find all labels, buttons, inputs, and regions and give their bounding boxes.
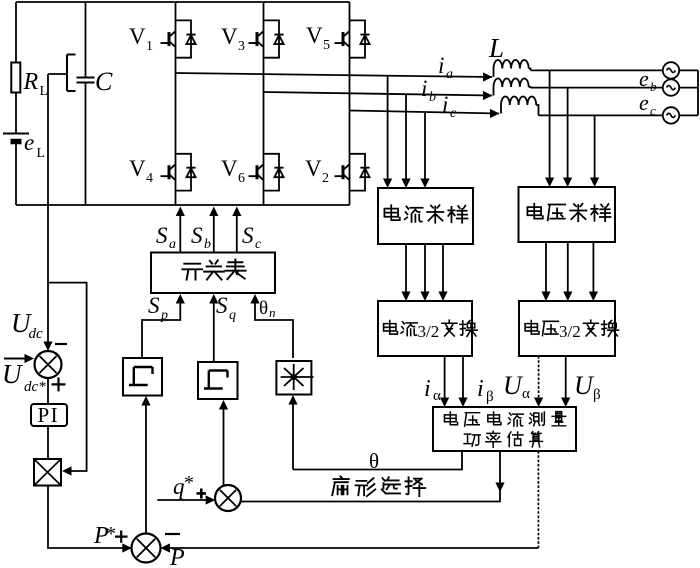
svg-text:β: β [593, 387, 601, 403]
svg-text:U: U [503, 371, 524, 400]
svg-text:b: b [429, 90, 436, 105]
svg-text:6: 6 [238, 171, 245, 186]
svg-text:i: i [424, 376, 431, 402]
svg-text:3/2: 3/2 [418, 322, 440, 341]
svg-text:V: V [221, 156, 238, 181]
svg-text:q: q [229, 308, 236, 323]
svg-text:S: S [148, 293, 160, 318]
svg-text:n: n [269, 305, 276, 320]
svg-text:5: 5 [323, 38, 330, 53]
svg-text:e: e [639, 66, 649, 91]
svg-text:α: α [433, 388, 441, 404]
svg-text:P: P [169, 545, 185, 568]
svg-text:i: i [477, 376, 484, 402]
svg-text:a: a [446, 67, 453, 82]
svg-text:c: c [255, 237, 262, 252]
svg-text:PI: PI [38, 403, 60, 427]
svg-text:S: S [191, 223, 203, 248]
svg-text:S: S [216, 293, 228, 318]
svg-text:a: a [169, 237, 176, 252]
svg-text:e: e [639, 90, 649, 115]
svg-text:2: 2 [322, 171, 329, 186]
svg-text:S: S [242, 223, 254, 248]
svg-text:V: V [305, 156, 322, 181]
svg-text:3/2: 3/2 [559, 322, 581, 341]
svg-text:β: β [486, 389, 494, 405]
svg-text:c: c [450, 106, 457, 121]
svg-text:*: * [106, 523, 116, 545]
svg-text:b: b [204, 237, 211, 252]
svg-text:4: 4 [146, 171, 153, 186]
svg-text:i: i [421, 76, 427, 101]
svg-text:S: S [156, 223, 168, 248]
svg-text:dc*: dc* [24, 379, 46, 395]
svg-text:R: R [23, 69, 39, 95]
svg-text:1: 1 [146, 39, 153, 54]
svg-text:V: V [306, 23, 323, 48]
svg-text:i: i [438, 53, 444, 78]
svg-text:U: U [2, 359, 23, 389]
svg-text:θ: θ [369, 449, 379, 473]
svg-text:i: i [442, 92, 448, 117]
svg-text:dc: dc [29, 326, 44, 342]
svg-text:L: L [37, 146, 46, 161]
svg-text:V: V [221, 24, 238, 49]
svg-text:V: V [129, 24, 146, 49]
svg-text:C: C [95, 67, 113, 96]
svg-text:b: b [650, 79, 657, 94]
svg-text:θ: θ [259, 298, 268, 319]
svg-text:U: U [574, 371, 595, 400]
svg-text:c: c [650, 103, 656, 118]
svg-text:p: p [160, 308, 168, 323]
svg-text:α: α [522, 386, 530, 402]
svg-text:e: e [24, 130, 34, 155]
svg-text:L: L [40, 84, 49, 99]
svg-text:3: 3 [238, 39, 245, 54]
svg-text:L: L [488, 33, 504, 63]
svg-text:*: * [184, 472, 194, 494]
svg-text:V: V [129, 156, 146, 181]
svg-text:q: q [173, 474, 185, 499]
